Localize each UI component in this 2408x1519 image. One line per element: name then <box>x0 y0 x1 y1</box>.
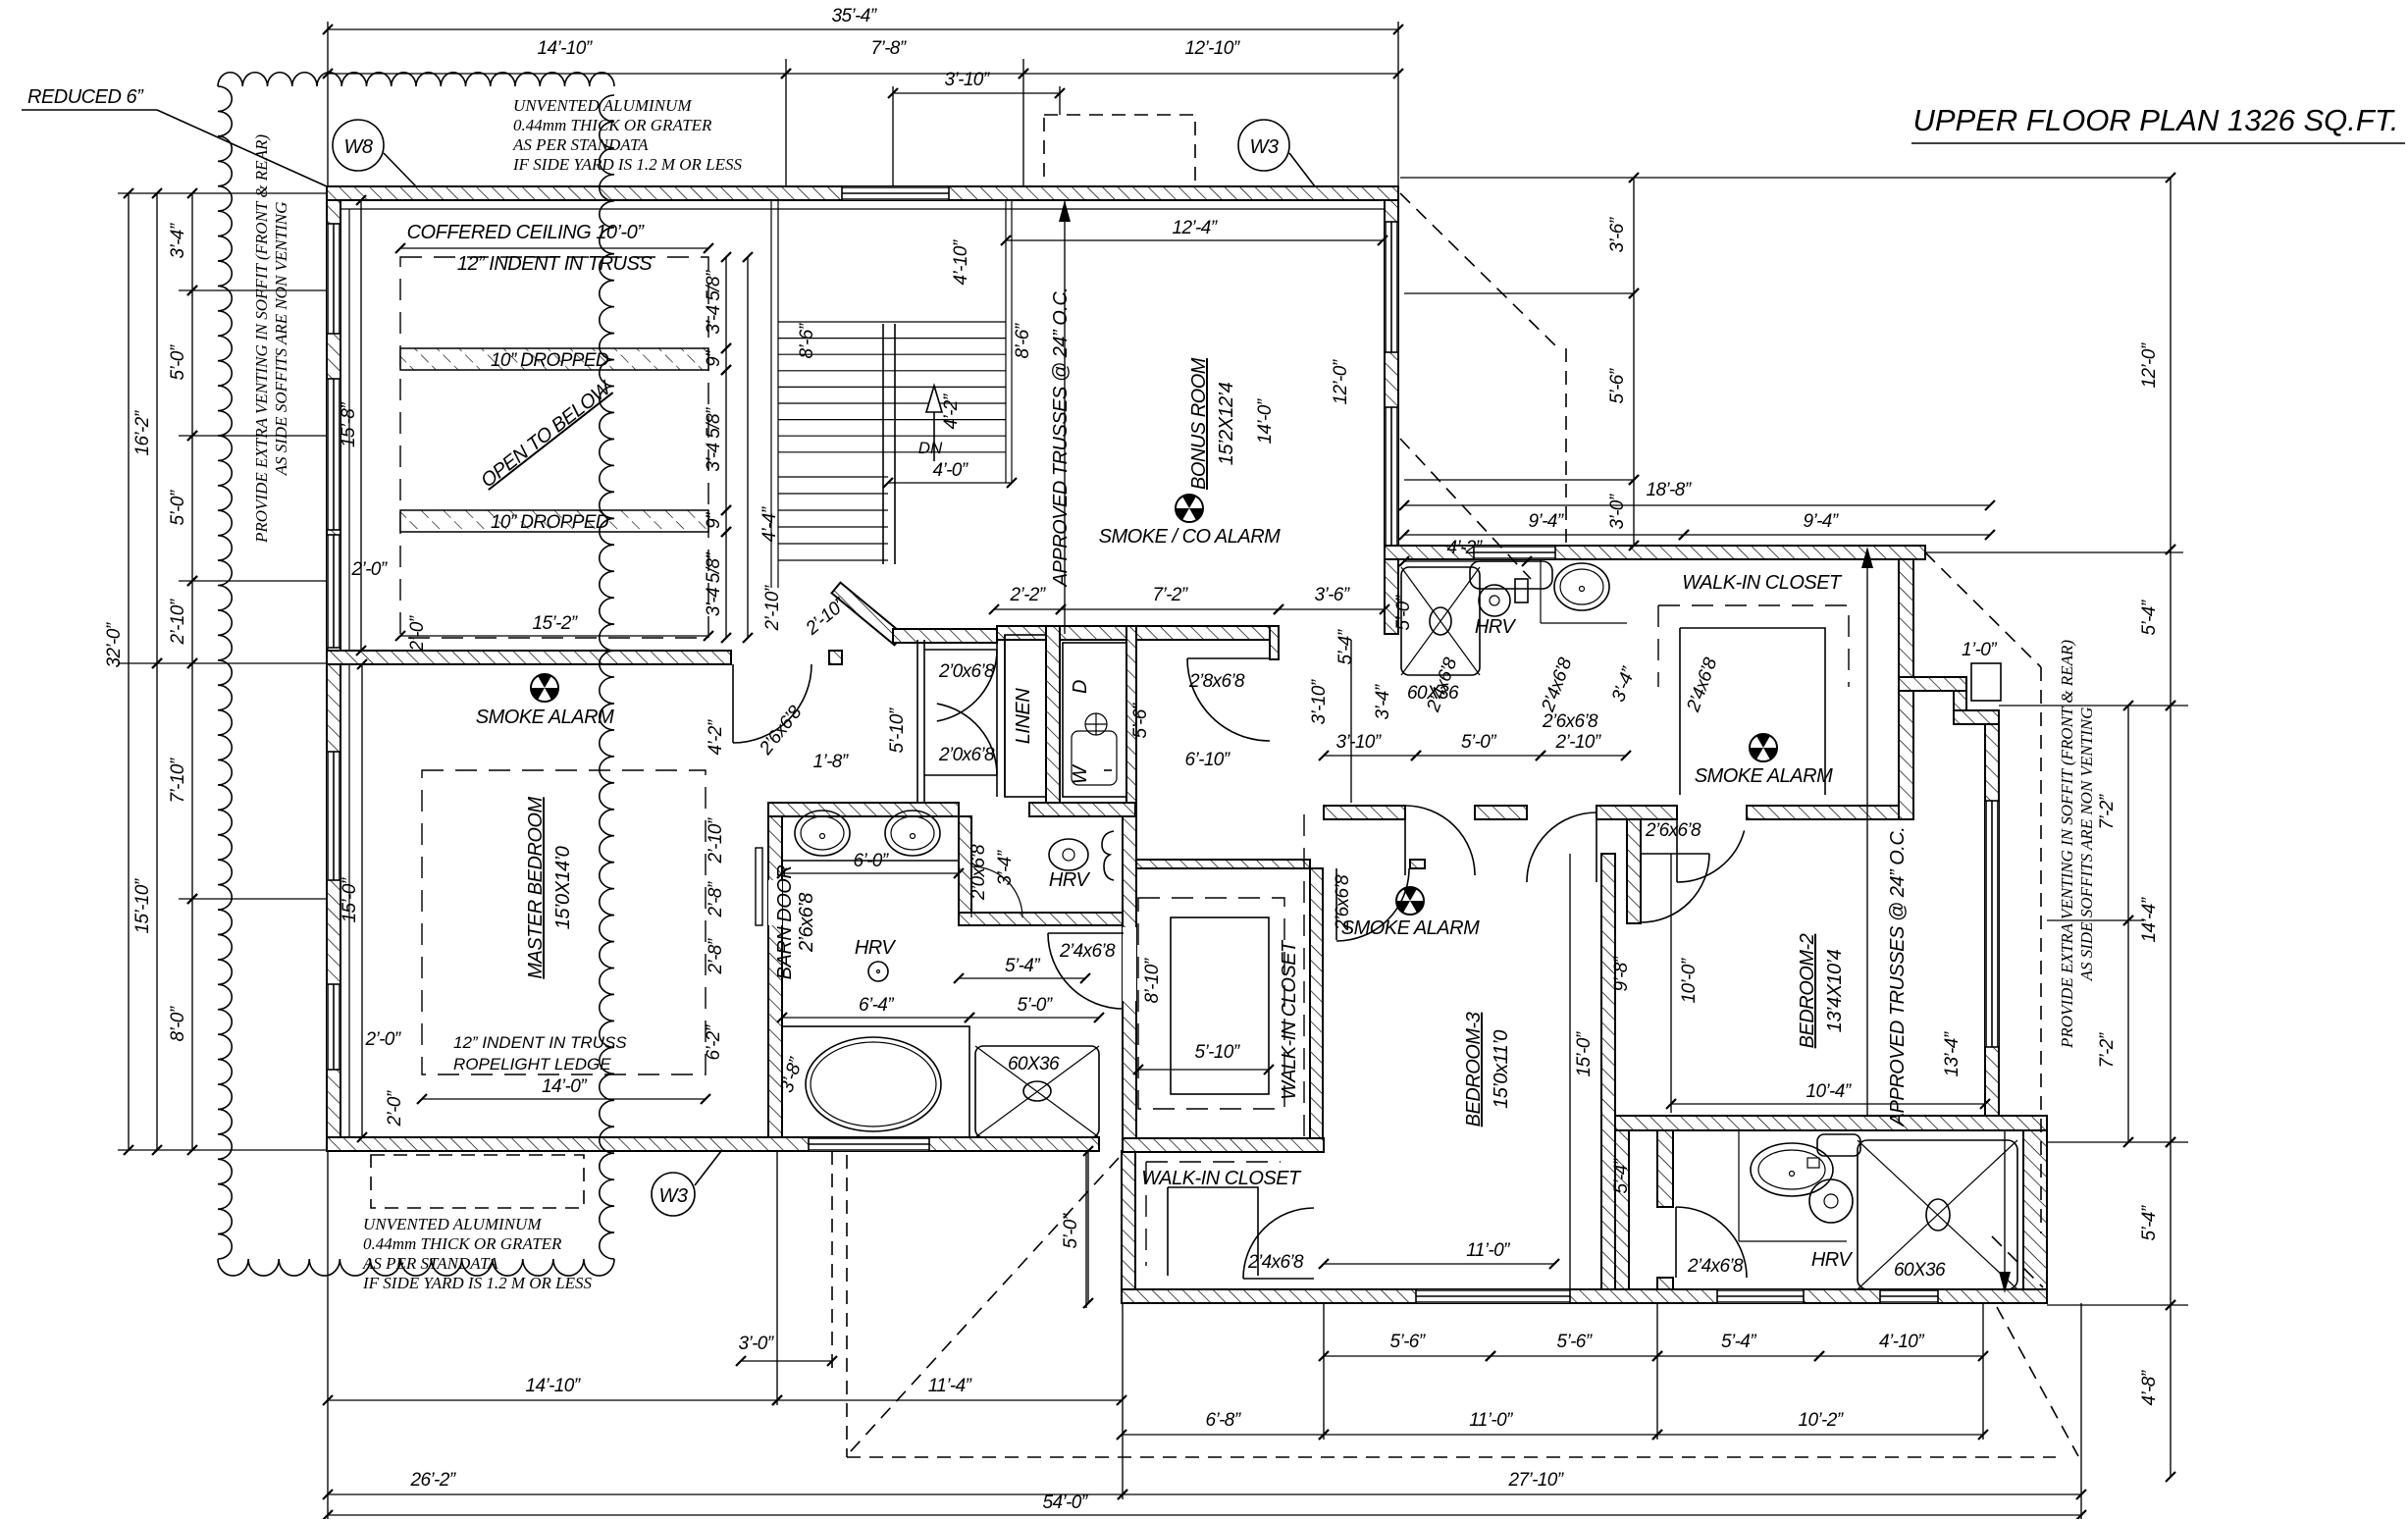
svg-text:4’-4”: 4’-4” <box>759 505 780 542</box>
chase wall <box>1615 1130 1629 1289</box>
dim <box>888 482 1012 484</box>
dashed rect bottom left <box>371 1155 584 1208</box>
svg-text:6’-0”: 6’-0” <box>853 851 889 871</box>
svg-text:11’-0”: 11’-0” <box>1469 1410 1514 1431</box>
bath2 door <box>1675 1207 1677 1278</box>
svg-text:3’-6”: 3’-6” <box>1607 216 1628 252</box>
svg-text:5’-6”: 5’-6” <box>1389 1332 1426 1352</box>
dim <box>2127 920 2129 1142</box>
dashed roof rect top <box>1044 115 1195 186</box>
bed3 WIC right wall <box>1310 868 1323 1138</box>
10in dropped band 1 <box>400 348 708 370</box>
bonus room right wall <box>1385 200 1398 634</box>
bath2 toilet <box>1817 1134 1860 1156</box>
svg-text:2’-0”: 2’-0” <box>385 1089 405 1126</box>
window left B2 <box>327 535 340 648</box>
hall south wall a <box>1324 806 1405 819</box>
window bonus B <box>1385 407 1398 550</box>
svg-text:1’-8”: 1’-8” <box>812 752 849 772</box>
window left B <box>327 379 340 530</box>
dim <box>893 92 1060 94</box>
window bed2 <box>1985 801 1999 1047</box>
dim <box>1404 534 1684 536</box>
svg-text:HRV: HRV <box>1049 869 1091 891</box>
svg-text:BARN DOOR: BARN DOOR <box>774 865 796 980</box>
master/ensuite partition <box>768 816 782 1137</box>
svg-text:26’-2”: 26’-2” <box>410 1470 457 1491</box>
svg-text:WALK-IN CLOSET: WALK-IN CLOSET <box>1279 939 1300 1100</box>
dim <box>2170 178 2172 550</box>
dim <box>2127 706 2129 920</box>
wall down to bed2 door <box>1627 819 1641 923</box>
svg-text:5’-4”: 5’-4” <box>1335 628 1356 664</box>
master/open-below wall <box>327 651 731 664</box>
svg-text:2’6x6’8: 2’6x6’8 <box>1333 874 1353 931</box>
svg-text:3’-4 5/8”: 3’-4 5/8” <box>704 406 724 472</box>
dim <box>969 1017 1099 1019</box>
svg-text:2’-8”: 2’-8” <box>706 880 726 917</box>
svg-text:5’-4”: 5’-4” <box>2139 599 2160 635</box>
svg-text:UPPER FLOOR PLAN 1326 SQ.FT.: UPPER FLOOR PLAN 1326 SQ.FT. <box>1912 103 2398 137</box>
dim <box>1671 1103 1985 1105</box>
svg-text:5’-4”: 5’-4” <box>2139 1204 2160 1240</box>
svg-text:27’-10”: 27’-10” <box>1508 1470 1565 1491</box>
svg-text:4’-0”: 4’-0” <box>932 460 968 481</box>
svg-text:2’6x6’8: 2’6x6’8 <box>796 893 817 953</box>
WIC right wall <box>1899 559 1913 819</box>
nook top wall <box>1029 803 1135 816</box>
svg-text:54’-0”: 54’-0” <box>1043 1493 1089 1513</box>
dim <box>191 663 193 899</box>
right top dims <box>1400 177 2171 179</box>
svg-text:12” INDENT IN TRUSS: 12” INDENT IN TRUSS <box>453 1033 627 1052</box>
svg-text:W8: W8 <box>344 136 373 158</box>
svg-text:6’-10”: 6’-10” <box>1185 750 1231 770</box>
svg-text:14’-0”: 14’-0” <box>1255 397 1276 444</box>
svg-text:5’-0”: 5’-0” <box>1393 594 1414 630</box>
svg-text:PROVIDE EXTRA VENTING IN SOFFI: PROVIDE EXTRA VENTING IN SOFFIT (FRONT &… <box>2058 640 2076 1049</box>
svg-text:5’-6”: 5’-6” <box>1130 702 1151 738</box>
top wall inner face line <box>340 208 1385 210</box>
dim <box>328 73 786 75</box>
dim <box>191 290 193 436</box>
svg-text:9’-4”: 9’-4” <box>1803 511 1839 532</box>
svg-text:IF SIDE YARD IS 1.2 M OR LESS: IF SIDE YARD IS 1.2 M OR LESS <box>512 155 743 174</box>
W8 bubble <box>333 120 384 171</box>
svg-text:W3: W3 <box>1250 136 1279 158</box>
window bath top <box>1474 546 1555 559</box>
bed3/bed2 partition <box>1601 854 1615 1289</box>
dim <box>1633 480 1635 546</box>
svg-text:7’-2”: 7’-2” <box>2097 1031 2118 1068</box>
dim <box>1491 1355 1657 1357</box>
svg-text:WALK-IN CLOSET: WALK-IN CLOSET <box>1141 1168 1302 1189</box>
svg-text:BEDROOM-2: BEDROOM-2 <box>1797 933 1818 1048</box>
dim <box>1633 293 1635 480</box>
svg-text:3’-6”: 3’-6” <box>1314 585 1350 605</box>
svg-text:7’-10”: 7’-10” <box>168 757 188 803</box>
svg-text:10’-4”: 10’-4” <box>1806 1081 1853 1102</box>
svg-text:14’-10”: 14’-10” <box>526 1376 582 1396</box>
svg-text:32’-0”: 32’-0” <box>104 621 125 667</box>
WIC divider wall <box>1123 1138 1324 1152</box>
svg-text:5’-0”: 5’-0” <box>1461 732 1497 753</box>
svg-text:15’0X14’0: 15’0X14’0 <box>552 846 574 929</box>
svg-text:12’-0”: 12’-0” <box>2139 341 2160 388</box>
svg-text:2’4x6’8: 2’4x6’8 <box>1247 1252 1304 1273</box>
jog wall <box>1899 677 1966 691</box>
bath2 left wall lower <box>1657 1278 1673 1289</box>
svg-text:REDUCED 6”: REDUCED 6” <box>27 86 144 108</box>
svg-text:11’-0”: 11’-0” <box>1466 1240 1511 1261</box>
svg-text:13’-4”: 13’-4” <box>1942 1030 1963 1076</box>
top bath toilet <box>1515 579 1528 602</box>
tub platform <box>782 1026 969 1137</box>
svg-text:2’-10”: 2’-10” <box>1555 732 1602 753</box>
dim <box>782 1017 969 1019</box>
svg-text:8’-6”: 8’-6” <box>797 322 817 358</box>
WIC south wall <box>1747 806 1899 819</box>
dashed roof outline bottom <box>846 1155 848 1457</box>
arrow up through WIC / trusses line <box>1866 554 1868 1116</box>
svg-text:3’-4”: 3’-4” <box>168 222 188 258</box>
dim <box>1279 608 1385 610</box>
dim <box>361 664 363 1137</box>
svg-text:3’-4 5/8”: 3’-4 5/8” <box>704 269 724 335</box>
dashed overhang right <box>1925 552 2041 667</box>
WIC centerline dash <box>1303 814 1305 1138</box>
dim <box>725 532 727 638</box>
jog wall v <box>1954 691 1966 724</box>
svg-text:15’-2”: 15’-2” <box>533 613 579 634</box>
svg-text:3’-10”: 3’-10” <box>945 70 991 90</box>
svg-text:15’2X12’4: 15’2X12’4 <box>1216 382 1237 465</box>
svg-text:4’-2”: 4’-2” <box>706 718 726 755</box>
revision cloud <box>218 73 614 86</box>
dim <box>1416 755 1541 757</box>
laundry closet <box>1063 643 1126 797</box>
svg-text:12” INDENT IN TRUSS: 12” INDENT IN TRUSS <box>457 253 653 275</box>
window bath2 bottom b <box>1880 1289 1938 1303</box>
svg-text:4’-2”: 4’-2” <box>941 393 962 429</box>
dim <box>328 1514 2081 1516</box>
svg-text:2’0x6’8: 2’0x6’8 <box>938 745 995 765</box>
dim <box>782 872 959 874</box>
svg-text:7’-8”: 7’-8” <box>870 38 907 59</box>
ensuite top wall <box>768 803 959 816</box>
ensuite right wall <box>1123 816 1136 1138</box>
dim <box>777 1399 1122 1401</box>
bottom wall lower block <box>1122 1289 2047 1303</box>
WIC door <box>1243 1278 1314 1280</box>
svg-text:10’-2”: 10’-2” <box>1799 1410 1845 1431</box>
svg-text:15’-0”: 15’-0” <box>340 876 360 922</box>
bed3 WIC top wall <box>1136 860 1310 868</box>
dim <box>1541 755 1626 757</box>
dim <box>1684 534 1990 536</box>
svg-text:13’4X10’4: 13’4X10’4 <box>1824 949 1846 1032</box>
dim <box>1324 1434 1657 1436</box>
bath2 counter + sink <box>1738 1130 1740 1241</box>
svg-text:2’8x6’8: 2’8x6’8 <box>1188 671 1245 692</box>
dim <box>1657 1434 1983 1436</box>
svg-text:2’4x6’8: 2’4x6’8 <box>1687 1256 1744 1277</box>
window ensuite bottom <box>809 1137 929 1151</box>
dim <box>1122 1434 1324 1436</box>
svg-text:8’-6”: 8’-6” <box>1013 322 1033 358</box>
dim <box>1324 1355 1491 1357</box>
svg-text:14’-0”: 14’-0” <box>542 1076 588 1097</box>
wall end cap <box>1270 626 1279 659</box>
dim <box>328 1493 1123 1495</box>
dim <box>1657 1355 1819 1357</box>
window left A <box>327 224 340 334</box>
barn door <box>756 848 762 925</box>
ensuite shower <box>975 1046 1099 1137</box>
svg-text:DN: DN <box>918 439 943 457</box>
svg-text:15’-10”: 15’-10” <box>132 877 153 933</box>
linen right wall <box>1046 626 1060 803</box>
dim <box>2170 706 2172 1142</box>
nook left wall <box>959 816 971 917</box>
dim <box>994 608 1061 610</box>
lower block left wall <box>1122 1151 1135 1289</box>
top bath shower <box>1401 567 1480 675</box>
coffered ceiling dashed rect <box>400 257 708 638</box>
master smoke alarm <box>531 674 558 702</box>
svg-text:2’-0”: 2’-0” <box>350 559 388 580</box>
stairs upper run treads <box>778 321 1006 323</box>
dim <box>360 200 362 651</box>
stair side wall <box>916 640 918 803</box>
svg-text:12’-4”: 12’-4” <box>1173 218 1219 238</box>
top bath HRV <box>1479 585 1510 616</box>
svg-text:6’-2”: 6’-2” <box>704 1023 724 1060</box>
dim <box>400 635 708 637</box>
dim <box>741 1360 832 1362</box>
svg-text:5’-4”: 5’-4” <box>1005 956 1041 976</box>
svg-text:10’-0”: 10’-0” <box>1679 957 1700 1003</box>
svg-text:IF SIDE YARD IS 1.2 M OR LESS: IF SIDE YARD IS 1.2 M OR LESS <box>362 1274 593 1292</box>
stair DN arrow <box>933 407 935 461</box>
window bath2 bottom a <box>1717 1289 1804 1303</box>
svg-text:2’-0”: 2’-0” <box>364 1029 401 1050</box>
ensuite vanity counter <box>782 860 959 862</box>
stair diagonal wall <box>832 583 904 646</box>
svg-text:2’-10”: 2’-10” <box>762 584 783 631</box>
svg-text:60X36: 60X36 <box>1008 1054 1060 1074</box>
stair rails <box>882 324 884 564</box>
dim <box>1123 1493 2081 1495</box>
svg-text:9”: 9” <box>704 511 724 529</box>
svg-text:SMOKE / CO ALARM: SMOKE / CO ALARM <box>1099 526 1281 548</box>
svg-text:UNVENTED ALUMINUM: UNVENTED ALUMINUM <box>513 96 692 115</box>
svg-text:4’-8”: 4’-8” <box>2139 1369 2160 1405</box>
dim <box>1633 178 1635 293</box>
dim <box>2170 1305 2172 1477</box>
svg-text:5’-6”: 5’-6” <box>1607 367 1628 403</box>
dim 9 <box>725 510 727 532</box>
svg-text:3’-4”: 3’-4” <box>995 849 1016 885</box>
dim <box>1404 504 1990 506</box>
svg-text:APPROVED TRUSSES @ 24” O.C.: APPROVED TRUSSES @ 24” O.C. <box>1050 288 1072 588</box>
door 2-8 bonus <box>1187 657 1270 659</box>
bonus bottom / hall top wall <box>997 626 1279 640</box>
top bath sink <box>1540 559 1542 623</box>
dim <box>1324 755 1416 757</box>
svg-text:14’-10”: 14’-10” <box>538 38 594 59</box>
svg-text:3’-4 5/8”: 3’-4 5/8” <box>704 551 724 617</box>
svg-text:PROVIDE EXTRA VENTING IN SOFFI: PROVIDE EXTRA VENTING IN SOFFIT (FRONT &… <box>252 134 271 544</box>
ensuite entry door <box>1048 932 1124 934</box>
svg-text:15’0x11’0: 15’0x11’0 <box>1491 1030 1512 1109</box>
svg-text:9”: 9” <box>704 349 724 367</box>
svg-text:BONUS ROOM: BONUS ROOM <box>1188 357 1210 490</box>
svg-text:COFFERED CEILING 10’-0”: COFFERED CEILING 10’-0” <box>407 222 646 243</box>
dim <box>191 436 193 581</box>
dim <box>2170 1142 2172 1305</box>
svg-text:5’-10”: 5’-10” <box>1195 1042 1241 1063</box>
svg-text:10” DROPPED: 10” DROPPED <box>491 350 609 371</box>
svg-text:4’-2”: 4’-2” <box>1446 538 1483 558</box>
svg-text:0.44mm THICK OR GRATER: 0.44mm THICK OR GRATER <box>513 116 712 134</box>
svg-text:2’-10”: 2’-10” <box>706 816 726 864</box>
door jamb stub <box>829 651 842 664</box>
dim <box>1023 73 1398 75</box>
smoke/co alarm bonus <box>1176 495 1203 522</box>
dim <box>1006 239 1383 241</box>
svg-text:1’-0”: 1’-0” <box>1962 640 1998 660</box>
ensuite HRV <box>868 962 888 981</box>
left exterior wall <box>327 200 340 1151</box>
W3 bubble bottom <box>652 1173 695 1216</box>
svg-text:8’-0”: 8’-0” <box>168 1005 188 1041</box>
svg-text:5’-10”: 5’-10” <box>887 707 908 753</box>
svg-text:10” DROPPED: 10” DROPPED <box>491 512 609 533</box>
svg-text:2’-8”: 2’-8” <box>706 937 726 974</box>
hall top wall west <box>893 629 997 643</box>
bed2 right wall <box>1985 724 1999 1130</box>
svg-text:2’-0”: 2’-0” <box>407 614 428 652</box>
svg-text:ROPELIGHT LEDGE: ROPELIGHT LEDGE <box>453 1055 611 1074</box>
dim <box>191 193 193 290</box>
small bump right <box>1971 663 2001 701</box>
window left C <box>327 752 340 880</box>
nook door arc <box>970 864 972 917</box>
svg-text:7’-2”: 7’-2” <box>2097 793 2118 829</box>
bath2 right wall <box>2023 1130 2047 1303</box>
dim <box>2170 550 2172 706</box>
svg-text:35’-4”: 35’-4” <box>832 6 878 26</box>
stub <box>1410 860 1425 868</box>
double doors linen <box>924 649 997 651</box>
svg-text:5’-4”: 5’-4” <box>1611 1157 1632 1193</box>
dim <box>328 28 1398 30</box>
nook toilet <box>1102 831 1114 880</box>
svg-text:HRV: HRV <box>1475 616 1517 638</box>
bath2 left wall upper <box>1657 1130 1673 1207</box>
svg-text:3’-4”: 3’-4” <box>1373 683 1393 719</box>
svg-text:18’-8”: 18’-8” <box>1647 480 1693 500</box>
svg-text:MASTER BEDROOM: MASTER BEDROOM <box>525 797 547 979</box>
dim <box>156 663 158 1150</box>
svg-text:8’-10”: 8’-10” <box>1142 957 1163 1003</box>
linen left wall <box>996 635 998 797</box>
dim 9 <box>725 348 727 370</box>
bed3 entry door <box>1335 868 1337 940</box>
window bed3 bottom <box>1416 1289 1570 1303</box>
svg-text:UNVENTED ALUMINUM: UNVENTED ALUMINUM <box>363 1215 542 1233</box>
svg-text:D: D <box>1070 680 1091 694</box>
dim <box>1404 560 1527 562</box>
bed2 top-right wall <box>1954 710 1999 724</box>
window bonus A <box>1385 222 1398 352</box>
top bath bench <box>1470 561 1552 589</box>
svg-text:5’-0”: 5’-0” <box>1017 995 1053 1016</box>
dim 3-4 5/8 <box>725 257 727 348</box>
svg-text:APPROVED TRUSSES @ 24” O.C.: APPROVED TRUSSES @ 24” O.C. <box>1887 827 1909 1127</box>
svg-text:15’-8”: 15’-8” <box>339 401 359 447</box>
svg-text:0.44mm THICK OR GRATER: 0.44mm THICK OR GRATER <box>363 1234 562 1253</box>
W3 bubble top <box>1238 120 1289 171</box>
svg-text:HRV: HRV <box>855 937 897 959</box>
svg-text:W3: W3 <box>659 1185 688 1207</box>
stairs lower run treads <box>778 476 888 478</box>
svg-text:7’-2”: 7’-2” <box>1152 585 1188 605</box>
bed2 bottom / bath2 top wall <box>1615 1116 2047 1130</box>
dim <box>156 193 158 663</box>
jog bonus-bath <box>1385 559 1398 634</box>
svg-text:2’-2”: 2’-2” <box>1009 585 1046 605</box>
dim <box>1138 1069 1269 1071</box>
svg-text:SMOKE ALARM: SMOKE ALARM <box>476 707 614 728</box>
dim <box>1819 1355 1983 1357</box>
svg-text:4’-10”: 4’-10” <box>951 238 971 285</box>
dim <box>128 193 130 1150</box>
dim <box>959 977 1085 979</box>
svg-text:2’-10”: 2’-10” <box>168 598 188 645</box>
bath2 shower <box>1858 1140 2017 1289</box>
bath/WIC top wall <box>1385 546 1925 559</box>
dim <box>786 73 1023 75</box>
dim <box>422 1098 706 1100</box>
window top (stairs) <box>842 186 949 200</box>
dim <box>725 370 727 510</box>
dim <box>1087 1151 1089 1303</box>
svg-text:AS SIDE SOFFITS ARE NON VENTIN: AS SIDE SOFFITS ARE NON VENTING <box>2077 707 2096 982</box>
svg-text:WALK-IN CLOSET: WALK-IN CLOSET <box>1682 572 1843 594</box>
dim <box>1061 608 1279 610</box>
dim <box>1324 1263 1554 1265</box>
svg-text:5’-0”: 5’-0” <box>168 489 188 525</box>
svg-text:16’-2”: 16’-2” <box>132 409 153 455</box>
svg-text:15’-0”: 15’-0” <box>1574 1030 1595 1076</box>
svg-text:BEDROOM-3: BEDROOM-3 <box>1463 1012 1485 1126</box>
svg-text:3’-10”: 3’-10” <box>1309 678 1330 724</box>
svg-text:2’6x6’8: 2’6x6’8 <box>1542 711 1598 732</box>
svg-text:3’-0”: 3’-0” <box>1607 493 1628 529</box>
svg-text:5’-4”: 5’-4” <box>1721 1332 1757 1352</box>
svg-text:3’-0”: 3’-0” <box>738 1334 774 1354</box>
dashed diagonals top right <box>1400 193 1558 348</box>
hall south wall c <box>1597 806 1677 819</box>
doors row <box>1404 806 1406 875</box>
svg-text:AS PER STANDATA: AS PER STANDATA <box>512 135 649 154</box>
nook bottom wall <box>959 913 1123 925</box>
bed2 door <box>1641 853 1709 855</box>
stairwell right wall <box>1005 200 1007 483</box>
svg-text:9’-4”: 9’-4” <box>1528 511 1564 532</box>
